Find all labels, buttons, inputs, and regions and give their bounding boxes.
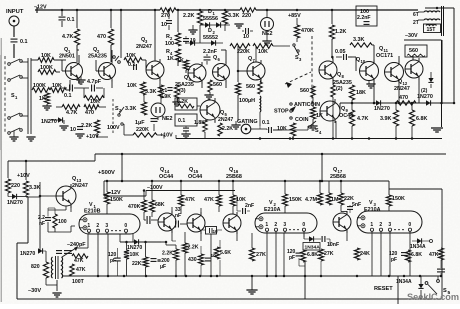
svg-text:1.2K: 1.2K xyxy=(335,29,346,35)
svg-text:10K: 10K xyxy=(126,53,136,59)
svg-text:100: 100 xyxy=(165,41,174,47)
svg-text:3.3K: 3.3K xyxy=(29,185,40,191)
svg-text:10K: 10K xyxy=(127,83,137,89)
svg-text:0: 0 xyxy=(124,223,127,229)
svg-text:nF: nF xyxy=(175,213,181,219)
svg-text:2: 2 xyxy=(96,223,99,229)
svg-text:0.1: 0.1 xyxy=(128,62,136,68)
svg-text:ANTICOIN: ANTICOIN xyxy=(294,102,320,108)
svg-text:150K: 150K xyxy=(110,197,123,203)
svg-text:1N270: 1N270 xyxy=(127,245,142,251)
svg-text:1K: 1K xyxy=(39,96,46,102)
svg-text:47K: 47K xyxy=(204,197,214,203)
svg-text:25A235: 25A235 xyxy=(88,54,107,60)
svg-text:2.2K: 2.2K xyxy=(162,251,173,257)
svg-text:3.3K: 3.3K xyxy=(353,37,364,43)
svg-text:1N270: 1N270 xyxy=(7,200,23,206)
svg-text:1: 1 xyxy=(265,222,268,228)
svg-text:470: 470 xyxy=(97,34,106,40)
svg-text:100K: 100K xyxy=(33,83,46,89)
svg-text:3.3K: 3.3K xyxy=(125,106,136,112)
svg-text:0.1: 0.1 xyxy=(262,120,270,126)
svg-text:10nF: 10nF xyxy=(327,242,339,248)
svg-text:55556: 55556 xyxy=(203,16,218,22)
svg-text:3: 3 xyxy=(388,222,391,228)
svg-text:2N247: 2N247 xyxy=(72,183,88,189)
svg-text:SeekIC.com: SeekIC.com xyxy=(407,292,459,302)
svg-text:220K: 220K xyxy=(237,49,250,55)
svg-text:15T: 15T xyxy=(427,27,437,33)
svg-text:560: 560 xyxy=(409,48,418,54)
svg-text:820: 820 xyxy=(31,264,40,270)
svg-text:+500V: +500V xyxy=(98,170,115,176)
svg-text:560: 560 xyxy=(300,88,309,94)
svg-text:470: 470 xyxy=(85,110,94,116)
svg-text:0.1: 0.1 xyxy=(178,118,185,124)
svg-text:10: 10 xyxy=(70,127,76,133)
svg-text:10: 10 xyxy=(161,22,167,28)
svg-text:3.3K: 3.3K xyxy=(145,89,156,95)
svg-text:0.1: 0.1 xyxy=(67,17,75,23)
svg-text:2.2nF: 2.2nF xyxy=(357,15,371,21)
svg-text:2N501: 2N501 xyxy=(59,54,75,60)
svg-text:2N247: 2N247 xyxy=(136,44,152,50)
svg-text:3: 3 xyxy=(105,223,108,229)
svg-text:10K: 10K xyxy=(258,49,268,55)
svg-text:25B68: 25B68 xyxy=(330,174,346,180)
svg-text:INPUT: INPUT xyxy=(6,9,24,15)
svg-text:100K: 100K xyxy=(40,65,53,71)
svg-text:47K: 47K xyxy=(74,258,84,264)
svg-text:RESET: RESET xyxy=(374,286,393,292)
svg-text:100: 100 xyxy=(58,219,67,225)
svg-text:2.2K: 2.2K xyxy=(183,13,194,19)
svg-text:1K: 1K xyxy=(167,56,174,62)
svg-text:OC171: OC171 xyxy=(376,53,393,59)
svg-text:2N247: 2N247 xyxy=(394,86,410,92)
svg-text:4.7pF: 4.7pF xyxy=(87,79,102,85)
svg-text:10K: 10K xyxy=(130,252,140,258)
svg-text:18K: 18K xyxy=(356,90,366,96)
svg-text:E210A: E210A xyxy=(264,207,281,213)
svg-text:68K: 68K xyxy=(155,202,165,208)
svg-text:1N34A: 1N34A xyxy=(305,245,321,251)
svg-text:10: 10 xyxy=(190,38,196,44)
svg-text:4.7K: 4.7K xyxy=(357,116,368,122)
svg-text:2.2K: 2.2K xyxy=(188,245,199,251)
svg-text:55552: 55552 xyxy=(203,35,218,41)
svg-text:2.2K: 2.2K xyxy=(81,123,92,129)
svg-text:220: 220 xyxy=(11,183,20,189)
svg-text:3.3K: 3.3K xyxy=(228,13,239,19)
svg-text:STOP: STOP xyxy=(274,109,289,115)
svg-text:4.7K: 4.7K xyxy=(62,34,73,40)
svg-text:1N34A: 1N34A xyxy=(410,244,426,250)
svg-text:0: 0 xyxy=(408,222,411,228)
svg-text:1N270: 1N270 xyxy=(20,251,35,257)
svg-text:6.8K: 6.8K xyxy=(307,252,318,258)
svg-text:1.8K: 1.8K xyxy=(194,120,205,126)
svg-text:27K: 27K xyxy=(324,251,334,257)
svg-text:D: D xyxy=(208,28,212,34)
svg-text:6.8K: 6.8K xyxy=(411,252,422,258)
svg-text:4.7K: 4.7K xyxy=(66,110,77,116)
svg-text:+10V: +10V xyxy=(160,133,173,139)
svg-text:μF: μF xyxy=(160,264,166,270)
svg-text:OC44: OC44 xyxy=(159,174,173,180)
svg-text:5.6K: 5.6K xyxy=(220,250,231,256)
svg-text:E210A: E210A xyxy=(364,207,381,213)
svg-text:1: 1 xyxy=(87,223,90,229)
svg-text:V: V xyxy=(369,200,373,206)
svg-text:10K: 10K xyxy=(90,99,100,105)
svg-text:OC44: OC44 xyxy=(188,174,202,180)
svg-text:10K: 10K xyxy=(41,53,51,59)
svg-text:4.7M: 4.7M xyxy=(305,197,317,203)
svg-text:3: 3 xyxy=(283,222,286,228)
svg-text:100V: 100V xyxy=(107,125,120,131)
svg-text:220: 220 xyxy=(242,13,251,19)
svg-text:V: V xyxy=(269,200,273,206)
svg-text:8.2K: 8.2K xyxy=(177,99,188,105)
svg-text:0: 0 xyxy=(302,222,305,228)
svg-text:V: V xyxy=(89,202,93,208)
svg-text:27K: 27K xyxy=(256,252,266,258)
svg-text:25B68: 25B68 xyxy=(226,174,242,180)
svg-text:+10V: +10V xyxy=(17,173,30,179)
svg-text:470K: 470K xyxy=(301,28,314,34)
svg-text:2.2K: 2.2K xyxy=(222,126,233,132)
svg-text:430: 430 xyxy=(188,257,197,263)
svg-text:560: 560 xyxy=(213,82,222,88)
svg-text:150K: 150K xyxy=(289,197,302,203)
svg-text:100µH: 100µH xyxy=(239,98,255,104)
svg-text:47K: 47K xyxy=(185,197,195,203)
svg-text:2N247: 2N247 xyxy=(218,117,233,123)
svg-text:0.1: 0.1 xyxy=(20,39,28,45)
svg-text:47K: 47K xyxy=(76,267,86,273)
svg-text:pF: pF xyxy=(391,257,397,263)
svg-text:10K: 10K xyxy=(277,126,287,132)
svg-text:(2): (2) xyxy=(336,86,343,92)
svg-text:D: D xyxy=(208,9,212,15)
svg-text:–12V: –12V xyxy=(34,5,47,11)
svg-text:22K: 22K xyxy=(132,261,142,267)
svg-text:47K: 47K xyxy=(429,252,439,258)
svg-text:1μF: 1μF xyxy=(135,120,145,126)
svg-text:1K: 1K xyxy=(177,58,184,64)
svg-text:2: 2 xyxy=(274,222,277,228)
svg-text:pF: pF xyxy=(110,258,116,264)
svg-text:NE2: NE2 xyxy=(162,116,173,122)
svg-text:6.8K: 6.8K xyxy=(416,116,427,122)
svg-text:100T: 100T xyxy=(72,279,85,285)
svg-text:5nF: 5nF xyxy=(352,202,361,208)
svg-text:–30V: –30V xyxy=(405,33,418,39)
svg-text:24K: 24K xyxy=(360,251,370,257)
svg-text:–30V: –30V xyxy=(28,288,41,294)
svg-text:470K: 470K xyxy=(128,204,141,210)
svg-text:1N270: 1N270 xyxy=(374,106,390,112)
svg-text:560: 560 xyxy=(246,84,255,90)
svg-text:+85V: +85V xyxy=(288,13,301,19)
svg-text:0.1: 0.1 xyxy=(64,93,72,99)
svg-text:1K: 1K xyxy=(316,113,323,119)
svg-text:470: 470 xyxy=(399,95,408,101)
svg-text:150K: 150K xyxy=(392,196,405,202)
svg-text:pF: pF xyxy=(289,255,295,261)
svg-text:10: 10 xyxy=(243,34,249,40)
svg-text:8.9K: 8.9K xyxy=(160,94,171,100)
svg-text:(3): (3) xyxy=(179,88,186,94)
svg-text:COIN: COIN xyxy=(295,117,309,123)
svg-text:3.9K: 3.9K xyxy=(380,116,391,122)
svg-text:2nF: 2nF xyxy=(245,203,254,209)
svg-text:6T: 6T xyxy=(413,12,419,18)
svg-text:220K: 220K xyxy=(136,127,149,133)
svg-text:1: 1 xyxy=(370,222,373,228)
svg-text:2T: 2T xyxy=(413,20,419,26)
svg-text:2: 2 xyxy=(379,222,382,228)
